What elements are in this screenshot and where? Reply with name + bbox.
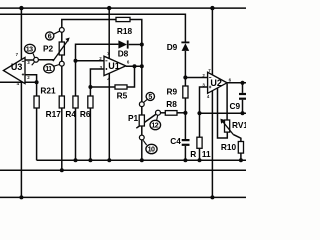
svg-text:R8: R8 [166,99,177,109]
svg-text:R6: R6 [80,109,91,119]
wire terminal 13 to P2 wiper [38,59,54,61]
wire P1 box to bottom terminal [141,126,143,135]
svg-text:C4: C4 [170,136,181,146]
svg-text:10: 10 [148,146,155,154]
svg-text:U1: U1 [108,61,120,71]
svg-text:R4: R4 [65,109,76,119]
svg-text:R5: R5 [117,90,128,100]
wire R18 right elbow down [130,20,142,45]
svg-text:P2: P2 [43,44,54,54]
svg-text:6: 6 [48,33,52,41]
trimmer RV1 wiper arrow [220,119,233,135]
svg-text:RV1: RV1 [232,120,246,130]
wire P1 bottom terminal to rail [141,140,143,160]
wire node column D8 to U1 output [141,45,143,67]
svg-text:U3: U3 [11,62,23,72]
wire left stub at y82 [0,81,37,83]
wire U3 pin3 [25,59,34,61]
diode D9 [181,42,189,51]
op-amp U3 [3,52,30,86]
wire C9 top [242,83,244,93]
diode D8 [118,40,127,48]
wire U2 pin3 elbow [200,87,208,113]
resistor R6 [88,96,93,108]
svg-text:R18: R18 [117,26,133,36]
wire U2 pin5 to RV1 top [226,84,228,120]
wire P1 top terminal to box [141,107,143,115]
wire top positive rail [0,7,246,9]
wire R4 top [75,61,77,96]
resistor R10 [238,142,243,154]
wire P2 bottom to R17 [61,66,63,96]
wire rail B [0,169,246,171]
wire P2 top to R18 [62,20,116,28]
wire U2 pin4 down to bottom rail [211,91,213,198]
potentiometer P2 body [59,42,64,55]
encircled terminal number 5 [144,92,155,102]
wire U1 output down to P1 [141,66,143,102]
svg-text:R17: R17 [46,109,62,119]
wire R21 bottom into rail A [36,108,38,160]
svg-text:P1: P1 [128,113,139,123]
wire node to U2 pin2 [185,77,207,79]
wire U2 output [227,82,246,84]
op-amp U1 [99,51,130,81]
wire D8 cathode to node [129,44,142,46]
wire R11 top [199,113,201,137]
wire R5 left [90,86,115,88]
wire U1 pin3 input elbow [90,69,104,87]
wire R17 bottom to rail [61,108,63,170]
wire D8 anode elbow [76,44,119,61]
wire second top rail to D9 [0,14,185,42]
svg-text:11: 11 [202,149,211,159]
svg-text:R9: R9 [167,87,178,97]
wire rail A [37,159,246,161]
wire RV1 wiper to R10 [233,135,241,142]
wire R5 right elbow to output [127,66,135,87]
wire P2 bottom stub [61,55,63,61]
wire R9 bottom to C4 [184,98,186,139]
svg-text:D9: D9 [167,42,178,52]
wire R11 bottom [199,148,201,160]
wire U2 pin1 bracket to RV1 bottom [218,88,228,138]
encircled terminal number 6 [46,31,60,40]
wire U1 pin7 from top rail [108,8,110,60]
trimmer RV1 body [225,120,230,132]
svg-text:R: R [190,149,196,159]
encircled terminal number 10 [143,140,157,153]
wire P2 top circle stub [61,32,63,42]
wire P1 wiper diagonal [136,114,155,128]
svg-text:U2: U2 [210,78,222,88]
resistor R17 [59,96,64,108]
op-amp U2 [202,68,231,99]
wire bottom rail [0,196,246,198]
resistor R9 [183,86,188,98]
wire U1 pin4 down [108,73,110,161]
svg-text:D8: D8 [118,49,129,59]
potentiometer P2 wiper arrow [53,38,70,62]
wire U2 pin7 from top rail [211,8,213,75]
wire R6 top [89,87,91,96]
encircled terminal number 13 [25,44,36,65]
resistor R21 [34,96,39,108]
wire R4 bottom [75,108,77,160]
wire U1 pin2 input [76,60,105,62]
resistor R11 [197,137,202,148]
wire R6 bottom [89,108,91,160]
capacitor C4 [182,140,190,145]
wire C9 bottom [242,100,244,113]
svg-text:R21: R21 [40,85,56,95]
wire R21 top [36,82,38,96]
svg-text:R10: R10 [221,142,237,152]
wire net line right [200,112,247,114]
resistor R5 [115,85,127,89]
resistor R18 [116,17,130,21]
svg-text:13: 13 [26,46,33,54]
resistor R4 [73,96,78,108]
wire D9 cathode column to R9 [184,51,186,86]
wire U3 pin7 from top rail [20,8,22,63]
capacitor C9 [239,94,246,99]
wire R8 right to node [177,112,185,114]
svg-text:11: 11 [45,65,52,73]
wire C4 bottom to rail A [184,146,186,160]
encircled terminal number 12 [150,115,161,129]
potentiometer P1 body [139,115,144,126]
resistor R8 [165,111,177,116]
wire R10 bottom to rail A [240,153,242,160]
encircled terminal number 11 [44,64,60,73]
wire U3 pin2 elbow [25,75,37,82]
svg-text:C9: C9 [230,101,241,111]
wire R8 left to wiper terminal [161,112,166,114]
svg-text:12: 12 [151,122,158,130]
open terminal circles [34,28,161,140]
svg-text:5: 5 [148,93,152,101]
wire U3 pin4 down to bottom rail [20,80,22,198]
wire U1 output [126,65,142,67]
